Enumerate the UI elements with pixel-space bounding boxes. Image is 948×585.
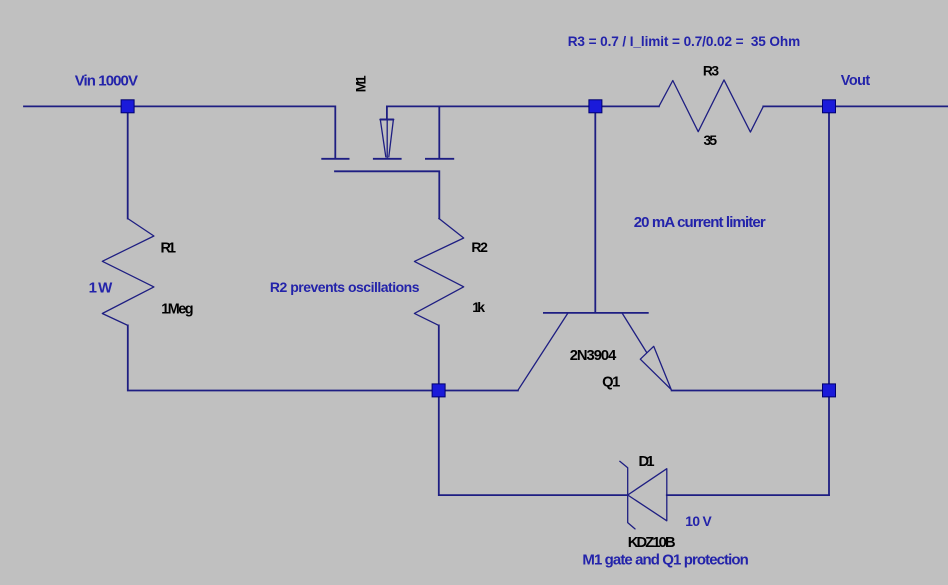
svg-text:1Meg: 1Meg (161, 302, 193, 318)
svg-text:1k: 1k (472, 299, 485, 315)
svg-text:D1: D1 (639, 454, 655, 470)
svg-text:M1: M1 (354, 75, 369, 92)
svg-text:M1 gate and Q1 protection: M1 gate and Q1 protection (582, 551, 748, 568)
svg-text:R2: R2 (471, 239, 488, 255)
svg-text:35: 35 (704, 133, 718, 148)
svg-text:R3: R3 (703, 64, 719, 79)
svg-text:1 W: 1 W (89, 280, 114, 297)
svg-text:10 V: 10 V (685, 514, 712, 529)
svg-text:Vout: Vout (841, 73, 871, 89)
svg-text:R2 prevents oscillations: R2 prevents oscillations (270, 279, 420, 295)
svg-text:R3 = 0.7 / I_limit = 0.7/0.02: R3 = 0.7 / I_limit = 0.7/0.02 = 35 Ohm (568, 34, 801, 49)
svg-text:R1: R1 (161, 241, 177, 257)
svg-text:KDZ10B: KDZ10B (628, 535, 676, 551)
svg-text:Q1: Q1 (602, 374, 620, 390)
svg-text:20 mA current limiter: 20 mA current limiter (634, 214, 766, 231)
svg-text:Vin 1000V: Vin 1000V (75, 72, 138, 89)
svg-text:2N3904: 2N3904 (570, 348, 617, 364)
